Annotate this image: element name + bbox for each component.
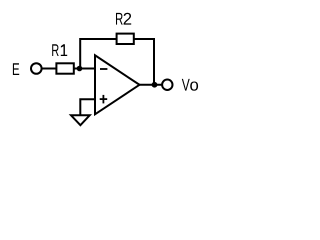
wire op-amp output to output terminal	[139, 84, 162, 86]
wire non-inverting input to ground	[80, 99, 95, 115]
op-amp non-inverting input plus sign	[100, 95, 108, 104]
op-amp U1	[95, 55, 140, 114]
wire input terminal to R1	[42, 68, 57, 70]
wire R1 to op-amp inverting input	[74, 68, 95, 70]
resistor R2	[117, 34, 134, 44]
output terminal Vo	[162, 80, 172, 90]
label R2	[116, 13, 131, 25]
input terminal E	[31, 63, 42, 74]
wire feedback up and across to R2	[80, 39, 117, 69]
junction node at inverting input	[77, 66, 83, 72]
junction node at output	[152, 82, 158, 88]
wire R2 to output node	[133, 39, 154, 85]
ground	[71, 115, 90, 125]
label R1	[52, 44, 67, 56]
op-amp inverting input minus sign	[100, 68, 107, 70]
resistor R1	[56, 63, 73, 73]
node Vo label	[182, 79, 198, 91]
node E label	[13, 63, 19, 75]
